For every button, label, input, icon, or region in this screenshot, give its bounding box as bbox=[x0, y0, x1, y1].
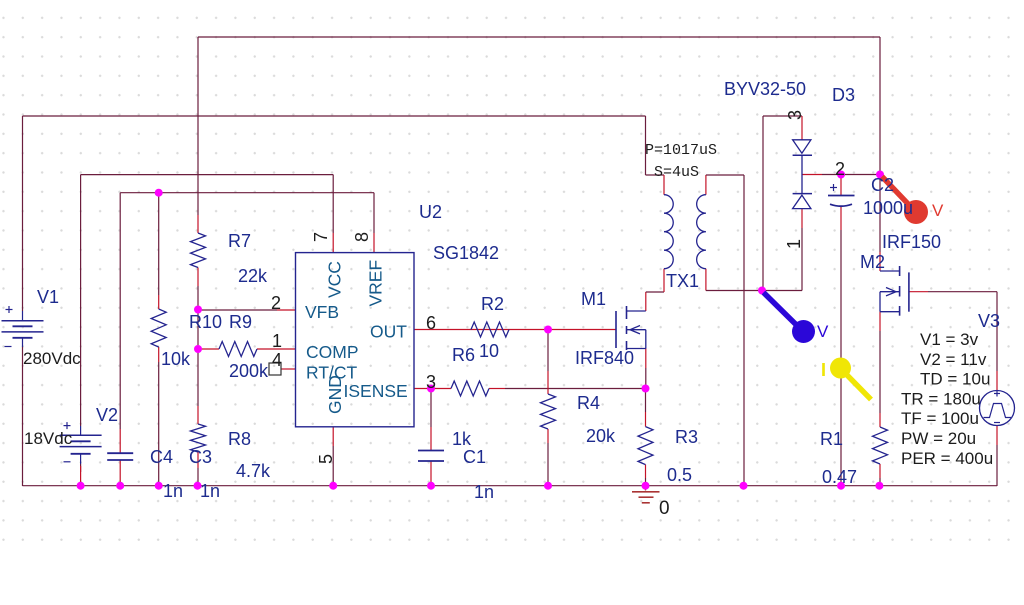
svg-text:VREF: VREF bbox=[366, 260, 386, 307]
svg-text:V1: V1 bbox=[37, 287, 59, 307]
svg-text:SG1842: SG1842 bbox=[433, 243, 499, 263]
svg-text:22k: 22k bbox=[238, 266, 268, 286]
svg-text:10: 10 bbox=[479, 341, 499, 361]
svg-text:R3: R3 bbox=[675, 427, 698, 447]
svg-text:1000u: 1000u bbox=[863, 198, 913, 218]
svg-text:0.5: 0.5 bbox=[667, 465, 692, 485]
svg-text:M1: M1 bbox=[581, 289, 606, 309]
svg-text:R8: R8 bbox=[228, 429, 251, 449]
svg-text:1: 1 bbox=[272, 331, 282, 351]
svg-text:C3: C3 bbox=[189, 447, 212, 467]
svg-text:I: I bbox=[821, 360, 826, 380]
svg-text:R1: R1 bbox=[820, 429, 843, 449]
svg-text:3: 3 bbox=[785, 110, 805, 120]
svg-text:4: 4 bbox=[272, 350, 282, 370]
svg-text:IRF840: IRF840 bbox=[575, 348, 634, 368]
svg-text:280Vdc: 280Vdc bbox=[23, 349, 81, 368]
svg-text:R2: R2 bbox=[481, 294, 504, 314]
svg-text:V2 = 11v: V2 = 11v bbox=[920, 350, 987, 369]
svg-text:D3: D3 bbox=[832, 85, 855, 105]
svg-text:1k: 1k bbox=[452, 429, 472, 449]
svg-text:R10: R10 bbox=[189, 312, 222, 332]
svg-text:V3: V3 bbox=[978, 311, 1000, 331]
svg-text:1: 1 bbox=[784, 239, 804, 249]
svg-text:VFB: VFB bbox=[305, 302, 339, 322]
svg-text:ISENSE: ISENSE bbox=[344, 381, 408, 401]
svg-text:C4: C4 bbox=[150, 447, 173, 467]
svg-text:5: 5 bbox=[316, 454, 336, 464]
svg-text:6: 6 bbox=[426, 313, 436, 333]
svg-text:R4: R4 bbox=[577, 393, 600, 413]
svg-text:R9: R9 bbox=[229, 312, 252, 332]
svg-text:V: V bbox=[817, 322, 829, 341]
svg-text:3: 3 bbox=[426, 372, 436, 392]
svg-text:4.7k: 4.7k bbox=[236, 461, 271, 481]
svg-text:V: V bbox=[932, 201, 944, 220]
svg-text:C1: C1 bbox=[463, 447, 486, 467]
svg-text:U2: U2 bbox=[419, 202, 442, 222]
svg-text:COMP: COMP bbox=[306, 342, 359, 362]
svg-text:TD = 10u: TD = 10u bbox=[920, 370, 990, 389]
svg-text:1n: 1n bbox=[200, 481, 220, 501]
svg-text:TX1: TX1 bbox=[666, 271, 699, 291]
svg-text:TR = 180u: TR = 180u bbox=[901, 389, 981, 408]
svg-text:7: 7 bbox=[311, 232, 331, 242]
svg-text:10k: 10k bbox=[161, 349, 191, 369]
svg-text:M2: M2 bbox=[860, 252, 885, 272]
svg-text:S=4uS: S=4uS bbox=[654, 164, 699, 181]
svg-text:P=1017uS: P=1017uS bbox=[645, 142, 717, 159]
svg-text:C2: C2 bbox=[871, 175, 894, 195]
svg-text:2: 2 bbox=[835, 159, 845, 179]
svg-text:PW = 20u: PW = 20u bbox=[901, 429, 976, 448]
svg-text:R7: R7 bbox=[228, 231, 251, 251]
svg-text:18Vdc: 18Vdc bbox=[24, 429, 73, 448]
svg-text:8: 8 bbox=[352, 232, 372, 242]
svg-text:V1 = 3v: V1 = 3v bbox=[920, 330, 979, 349]
svg-text:VCC: VCC bbox=[325, 261, 345, 298]
svg-text:BYV32-50: BYV32-50 bbox=[724, 79, 806, 99]
svg-text:IRF150: IRF150 bbox=[882, 232, 941, 252]
svg-text:TF = 100u: TF = 100u bbox=[901, 409, 979, 428]
svg-text:V2: V2 bbox=[96, 405, 118, 425]
svg-text:R6: R6 bbox=[452, 345, 475, 365]
svg-text:0: 0 bbox=[659, 498, 670, 519]
svg-text:1n: 1n bbox=[163, 481, 183, 501]
svg-text:2: 2 bbox=[271, 293, 281, 313]
svg-text:GND: GND bbox=[325, 375, 345, 414]
svg-text:0.47: 0.47 bbox=[822, 467, 857, 487]
svg-text:OUT: OUT bbox=[370, 322, 407, 342]
svg-text:1n: 1n bbox=[474, 482, 494, 502]
svg-text:20k: 20k bbox=[586, 426, 616, 446]
svg-text:200k: 200k bbox=[229, 361, 269, 381]
svg-text:PER = 400u: PER = 400u bbox=[901, 449, 993, 468]
